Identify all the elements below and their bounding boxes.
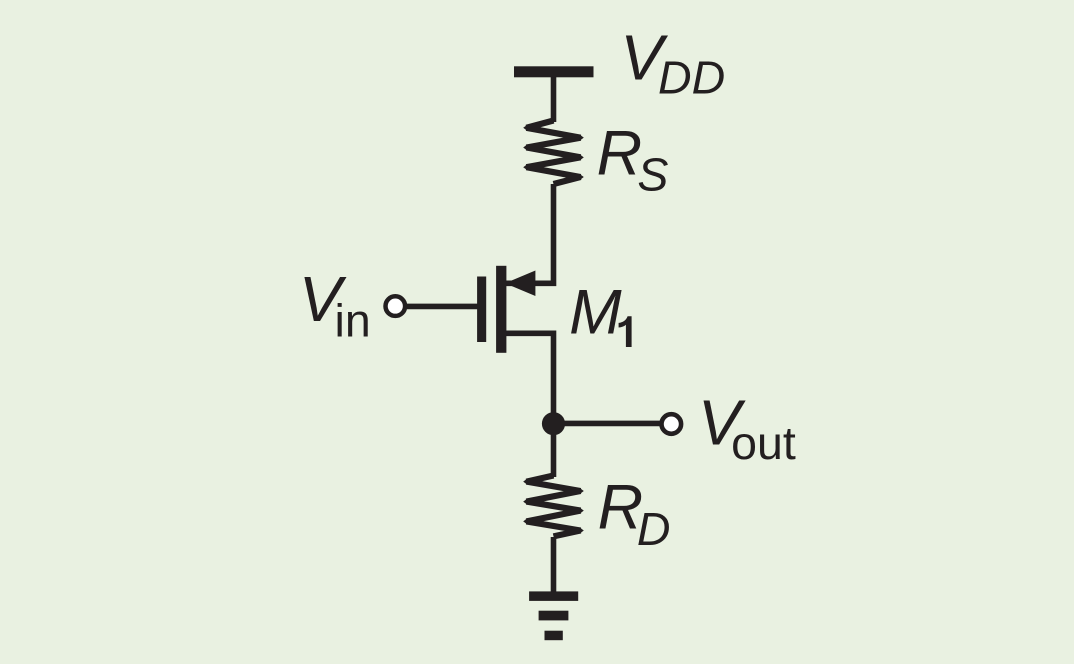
svg-text:in: in xyxy=(335,294,371,346)
svg-text:out: out xyxy=(731,417,796,469)
svg-text:S: S xyxy=(637,148,668,200)
svg-text:DD: DD xyxy=(658,51,725,103)
svg-text:M: M xyxy=(569,278,622,348)
svg-text:D: D xyxy=(637,503,671,555)
svg-text:R: R xyxy=(597,118,643,188)
